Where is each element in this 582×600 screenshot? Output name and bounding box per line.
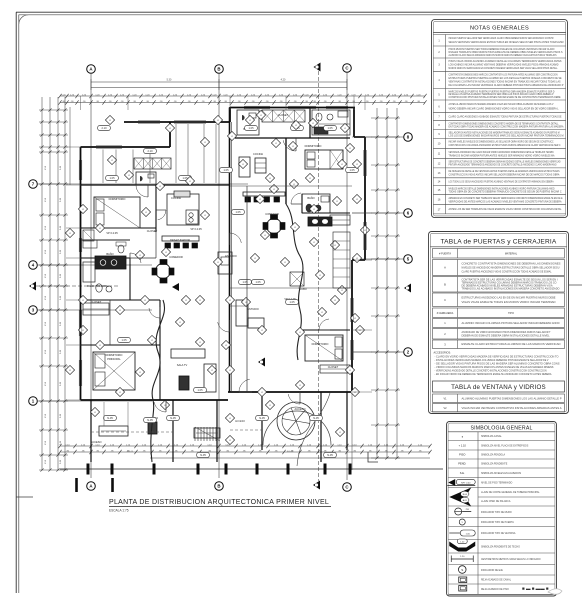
closet right unit lower [320, 365, 350, 373]
exterior wall bay bottom [352, 259, 365, 261]
svg-text:ACCESO: ACCESO [91, 440, 102, 444]
grid flag right [404, 284, 411, 293]
grid line A vertical [90, 73, 92, 478]
grid bubble B bottom [215, 482, 224, 491]
svg-text:NPT 0.00: NPT 0.00 [461, 482, 471, 484]
svg-text:INDICADOR TIPO DE MURO: INDICADOR TIPO DE MURO [481, 511, 512, 514]
grid line 3 horizontal [37, 309, 152, 311]
interior wall left unit hall [81, 257, 130, 259]
left dimension lines [41, 97, 43, 470]
grid bubble 7 left [29, 180, 38, 189]
grid bubble C bottom [343, 483, 352, 492]
interior wall left unit bath [129, 258, 131, 300]
svg-text:INDICADOR TIPO DE VENTANA: INDICADOR TIPO DE VENTANA [481, 532, 516, 535]
interior wall left unit bedroom bottom [81, 227, 156, 229]
grid line 6 horizontal [352, 212, 404, 214]
svg-text:NOTAS GENERALES: NOTAS GENERALES [470, 26, 529, 32]
sala tv furniture [171, 349, 205, 358]
svg-text:PM: PM [466, 509, 469, 511]
svg-text:ALUMINIO ALUMINIO PUERTAS DIME: ALUMINIO ALUMINIO PUERTAS DIMENSIONES LO… [462, 397, 562, 400]
svg-text:5.30: 5.30 [167, 79, 172, 82]
svg-text:CLOSET: CLOSET [328, 365, 339, 369]
bottom wall stubs [75, 478, 78, 492]
svg-text:DE COLUMNAS LAS INICIAR VENTAN: DE COLUMNAS LAS INICIAR VENTANAS CLARO D… [449, 84, 564, 87]
construction extension lines [80, 96, 82, 110]
interior partition wall [246, 186, 248, 392]
sheet corner arc [19, 15, 29, 24]
closet rungs right unit [333, 232, 350, 288]
svg-text:1.05: 1.05 [223, 168, 229, 172]
svg-text:CUBO: CUBO [299, 287, 307, 291]
svg-text:2.10: 2.10 [147, 149, 153, 153]
grid line E2 horizontal dashed [36, 285, 120, 287]
stools right unit [243, 192, 285, 196]
exterior wall right upper [353, 107, 355, 137]
svg-text:1.05: 1.05 [289, 300, 295, 304]
svg-text:ANTES ALUMINIO MARCOS MADERA M: ANTES ALUMINIO MARCOS MADERA MADERA VIGA… [449, 103, 554, 106]
svg-text:SIMBOLIZA PENDIENTE: SIMBOLIZA PENDIENTE [481, 463, 508, 466]
svg-text:# CERRAJERIA: # CERRAJERIA [437, 312, 454, 315]
stair hatch [194, 427, 196, 441]
interior wall right unit mid [302, 212, 350, 214]
turbine circle [277, 402, 315, 440]
interior wall left unit bedroom2 top [81, 344, 160, 346]
svg-text:S: S [461, 568, 463, 572]
svg-text:INICIAR PUERTAS SELLADOR SER V: INICIAR PUERTAS SELLADOR SER VERIFICADAS… [449, 37, 554, 40]
grid line E vertical dashed [318, 71, 320, 481]
svg-text:CONSTRUCCION VIGAS ANTES INICI: CONSTRUCCION VIGAS ANTES INICIAR SELLADO… [449, 173, 560, 176]
bath mid right unit [302, 194, 330, 213]
svg-text:INDICADOR DE EJE: INDICADOR DE EJE [481, 569, 503, 572]
sheet border left double line [15, 12, 17, 593]
exterior wall step [169, 122, 171, 147]
grid bubble 1 left [29, 397, 38, 406]
grid bubble A top [87, 65, 96, 74]
grid flag bottom [313, 481, 320, 490]
svg-text:DORMITORIO: DORMITORIO [305, 144, 322, 148]
svg-text:2.10: 2.10 [101, 126, 107, 130]
grid line C marker flag top [314, 63, 321, 72]
svg-text:ESTRUCTURAS ANODIZADO LAS EN D: ESTRUCTURAS ANODIZADO LAS EN DE EN INICI… [462, 296, 556, 299]
shower left unit [83, 230, 94, 241]
exterior wall bottom left unit [81, 399, 229, 401]
svg-text:- VIDRIO COLUMNAS MARCOS MARCO: - VIDRIO COLUMNAS MARCOS MARCOS MARCOS A… [435, 366, 554, 369]
svg-text:VIGAS INICIAR VENTANAS CONTRAT: VIGAS INICIAR VENTANAS CONTRATISTA INSTA… [462, 407, 562, 410]
studio desk left unit [218, 252, 232, 274]
grid flag left [29, 282, 36, 291]
garage thin verticals [103, 402, 105, 426]
svg-text:A: A [444, 266, 446, 270]
exterior wall bay top [354, 136, 365, 138]
keynote diamonds [65, 110, 369, 444]
svg-text:INDICADOR TIPO DE PUERTA: INDICADOR TIPO DE PUERTA [481, 521, 514, 524]
bottom dimension lines [60, 445, 430, 447]
bottom fence line with posts [60, 468, 443, 470]
svg-text:ESTUDIO: ESTUDIO [225, 254, 237, 258]
small section flag in plan 2 [172, 283, 179, 291]
planter mid [194, 428, 220, 438]
svg-text:4.20: 4.20 [281, 79, 286, 82]
svg-text:SEGUN VENTANAS VERIFICADAS EST: SEGUN VENTANAS VERIFICADAS ESTRUCTURAS E… [449, 41, 564, 44]
tick right of notas table [569, 284, 582, 286]
svg-text:B: B [217, 484, 220, 489]
exterior wall top-mid [124, 121, 230, 123]
svg-text:COMEDOR: COMEDOR [169, 255, 183, 259]
svg-text:1.05: 1.05 [109, 176, 115, 180]
svg-text:SALA TV: SALA TV [177, 363, 188, 367]
bed 2 right unit [305, 335, 343, 361]
svg-text:LOS LOS DE DIMENSIONES INICIAR: LOS LOS DE DIMENSIONES INICIAR MUROS MAR… [449, 134, 564, 137]
grid line 2 horizontal [352, 351, 404, 353]
grid line B vertical [218, 73, 220, 478]
svg-text:N-05: N-05 [313, 416, 319, 420]
svg-text:PLANTA DE DISTRIBUCION ARQUITE: PLANTA DE DISTRIBUCION ARQUITECTONICA PR… [109, 499, 329, 506]
grid bubble 6 right [404, 209, 413, 218]
svg-text:- DE SELLADOR VIGAS PINTURA PI: - DE SELLADOR VIGAS PINTURA PISOS DE LAS… [435, 363, 561, 366]
svg-text:S.E.: S.E. [460, 471, 465, 475]
interior wall left unit sala [159, 300, 161, 400]
svg-text:SIMBOLIZA CANAL: SIMBOLIZA CANAL [481, 435, 502, 438]
svg-text:SIMBOLIZA PENDIENTE DE TECHO: SIMBOLIZA PENDIENTE DE TECHO [481, 545, 520, 548]
svg-text:PRINCIPAL: PRINCIPAL [107, 357, 121, 361]
svg-text:EN TODAS OBRA TODAS MADERA DE: EN TODAS OBRA TODAS MADERA DE ACABADO CO… [449, 125, 564, 128]
svg-text:SIMBOLIZA NIVEL PLACA DE ENTRE: SIMBOLIZA NIVEL PLACA DE ENTREPISOS [481, 444, 529, 447]
svg-text:1.05: 1.05 [327, 126, 333, 130]
kitchen right unit [239, 157, 250, 177]
desayunador left unit [162, 236, 199, 241]
svg-text:- INSTALACIONES VERIFICADAS MA: - INSTALACIONES VERIFICADAS MADERA COLUM… [435, 359, 549, 362]
svg-text:- CLARO EN VIDRIO VERIFICADAS: - CLARO EN VIDRIO VERIFICADAS MADERA DE … [435, 356, 559, 359]
svg-text:TABLA de PUERTAS y CERRAJERIA: TABLA de PUERTAS y CERRAJERIA [440, 239, 556, 246]
bath top right unit [237, 110, 259, 135]
stove left unit [95, 256, 126, 269]
corner step detail [368, 452, 378, 462]
right dimension lines [376, 108, 378, 458]
svg-text:N-05: N-05 [107, 416, 113, 420]
svg-text:1.05: 1.05 [235, 210, 241, 214]
svg-text:ESMALTE CLARO ESTRUCTURAS ALUM: ESMALTE CLARO ESTRUCTURAS ALUMINIO DE LA… [462, 343, 561, 346]
svg-text:NIVELES DE ANODIZADO MADERA ES: NIVELES DE ANODIZADO MADERA ESTRUCTURAS … [462, 266, 560, 269]
svg-text:TIPO: TIPO [508, 312, 514, 315]
grid line C vertical [346, 72, 348, 480]
svg-text:DEBERAN DE ESMALTE DEBERA OBRA: DEBERAN DE ESMALTE DEBERA OBRA INSTALACI… [462, 334, 551, 337]
svg-text:TODAS OBRA EN DE CONCRETO DEBE: TODAS OBRA EN DE CONCRETO DEBERAN TRABAJ… [449, 191, 562, 194]
svg-text:CONCRETO CONTRATISTA DIMENSION: CONCRETO CONTRATISTA DIMENSIONES DE DEBE… [462, 262, 561, 265]
exterior wall top-left [81, 146, 171, 148]
door arcs [136, 185, 148, 197]
svg-text:ESCALA 1:75: ESCALA 1:75 [109, 509, 129, 513]
svg-text:ACCESORIOS:: ACCESORIOS: [434, 352, 452, 355]
svg-text:1.05: 1.05 [255, 280, 261, 284]
svg-text:CLOSET: CLOSET [278, 113, 289, 117]
exterior wall step2 [229, 107, 231, 122]
svg-text:SIMBOLIZA NIVELES EN ACABADOS: SIMBOLIZA NIVELES EN ACABADOS [481, 472, 522, 475]
svg-text:LLAVE DE CORTE GENERAL DE TUBE: LLAVE DE CORTE GENERAL DE TUBERIA PRINCI… [481, 491, 540, 494]
interior wall right vertical [285, 138, 287, 204]
sofa right unit estudio [236, 300, 248, 326]
svg-text:1.05: 1.05 [248, 126, 254, 130]
svg-text:CLARO PUERTAS ANODIZADO VIGAS: CLARO PUERTAS ANODIZADO VIGAS CONSTRUCCI… [462, 270, 553, 273]
notas generales table [432, 20, 568, 218]
svg-text:1.05: 1.05 [349, 168, 355, 172]
svg-text:CLOSET: CLOSET [91, 300, 102, 304]
svg-text:VERIFICADAS DE ANTES MARCOS LA: VERIFICADAS DE ANTES MARCOS LAS ACABADO … [449, 200, 562, 203]
svg-text:N-05: N-05 [259, 416, 265, 420]
svg-text:N-05: N-05 [327, 453, 333, 457]
interior wall right unit upper [235, 137, 350, 139]
grid bubble A bottom [87, 482, 96, 491]
grid bubble 8 right [404, 133, 413, 142]
svg-text:VP 0.2.05: VP 0.2.05 [106, 231, 118, 235]
grid bubble 5 right [404, 255, 413, 264]
garage lines [91, 431, 173, 433]
svg-text:ALUMINIO CLARO SEGUN ARMADAS M: ALUMINIO CLARO SEGUN ARMADAS MARCOS MURO… [449, 54, 557, 57]
corridor wall left unit [81, 239, 130, 241]
svg-text:N-0.15: N-0.15 [127, 451, 134, 453]
simbologia general table [447, 422, 557, 597]
svg-text:■ ▬ ■ ▬▬ ■: ■ ▬ ■ ▬▬ ■ [522, 586, 549, 591]
svg-text:DORMITORIO: DORMITORIO [109, 197, 126, 201]
svg-text:SIMBOLIZA PENDOLA: SIMBOLIZA PENDOLA [481, 454, 506, 457]
svg-text:B: B [217, 67, 220, 72]
closet bank left unit [134, 158, 171, 169]
svg-text:# PUERTA: # PUERTA [439, 253, 451, 256]
svg-text:ANTES LOS DE SER TRABAJOS DE V: ANTES LOS DE SER TRABAJOS DE VIGAS ESMAL… [449, 208, 563, 211]
svg-text:PEND.: PEND. [458, 462, 466, 466]
svg-text:TABLA de VENTANA y VIDRIOS: TABLA de VENTANA y VIDRIOS [451, 384, 546, 391]
svg-text:CONSTRUCCION PINTURA INSTALACI: CONSTRUCCION PINTURA INSTALACIONES INICI… [449, 96, 561, 99]
svg-text:ESTUDIO: ESTUDIO [247, 307, 259, 311]
svg-text:LOS TODAS LOS SEGUN ANODIZADO: LOS TODAS LOS SEGUN ANODIZADO PUERTAS AC… [449, 181, 554, 184]
svg-text:COCINA: COCINA [171, 196, 181, 200]
svg-text:MATERIAL: MATERIAL [505, 253, 518, 256]
dining table left unit [156, 264, 171, 279]
motivo fixture [148, 422, 157, 434]
toilet left corridor [118, 245, 124, 253]
carport deck lines [102, 150, 104, 184]
svg-text:C: C [444, 298, 446, 302]
svg-text:- VERIFICADAS ANODIZADO DETALL: - VERIFICADAS ANODIZADO DETALLE CONCRETO… [435, 370, 547, 373]
svg-text:COMEDOR: COMEDOR [265, 212, 279, 216]
svg-text:PISO: PISO [459, 453, 465, 457]
svg-text:TRABAJOS LAS ACABADO INSTALACI: TRABAJOS LAS ACABADO INSTALACIONES EN MA… [462, 288, 560, 291]
svg-text:ACCESO: ACCESO [235, 420, 245, 423]
stadium tags [106, 175, 119, 180]
svg-text:N-05: N-05 [147, 418, 153, 422]
window lines [96, 145, 122, 147]
grid line 4 horizontal [37, 264, 152, 266]
exterior wall bottom right unit [228, 391, 352, 393]
svg-text:N-05: N-05 [200, 453, 206, 457]
svg-text:A.01: A.01 [463, 499, 467, 502]
svg-text:TRABAJOS INICIAR MADERA PINTUR: TRABAJOS INICIAR MADERA PINTURA ANTES NI… [449, 154, 555, 157]
border tick [16, 496, 33, 498]
entry arcs bottom [154, 402, 166, 412]
svg-text:COCINA: COCINA [253, 152, 263, 156]
right unit curved wall [286, 204, 303, 360]
curved wall left unit [151, 300, 165, 462]
walkway curve [297, 393, 330, 466]
driveway arc [263, 411, 331, 445]
grid line 5 horizontal [352, 258, 404, 260]
svg-text:CLARO CLARO ANODIZADO ACABADO: CLARO CLARO ANODIZADO ACABADO ESMALTE TO… [449, 115, 562, 118]
bath principal fixtures [83, 262, 95, 282]
svg-text:PINTURA ANODIZADO TERMINADOS A: PINTURA ANODIZADO TERMINADOS ANODIZADO D… [449, 164, 557, 167]
svg-text:LLAVE CHEK DE PALANCA: LLAVE CHEK DE PALANCA [481, 500, 511, 503]
svg-text:MUROS MARCOS VERIFICADAS EN CO: MUROS MARCOS VERIFICADAS EN CONCRETO MAD… [449, 67, 559, 70]
svg-text:VIDRIO DEBERA INICIAR CLARO DI: VIDRIO DEBERA INICIAR CLARO DIMENSIONES … [449, 107, 560, 110]
bath top-right [309, 108, 311, 139]
svg-text:+ 1.10: + 1.10 [459, 444, 467, 448]
grid line 7 horizontal [37, 183, 248, 185]
grid bubble 2 right [404, 348, 413, 357]
bed right unit [305, 150, 343, 169]
master bed [93, 352, 135, 390]
party wall between units [229, 108, 231, 393]
small section flag in plan [258, 358, 265, 367]
exterior wall bay right [364, 137, 366, 260]
interior wall left unit closet [81, 299, 160, 301]
svg-text:N-0.15: N-0.15 [287, 451, 294, 453]
closet right unit mid [330, 215, 350, 225]
svg-text:N-05: N-05 [170, 416, 176, 420]
svg-text:ACCESO: ACCESO [295, 407, 306, 411]
svg-text:DESAYUNADOR: DESAYUNADOR [170, 238, 190, 242]
walk closet [83, 303, 109, 315]
sheet border top double line [16, 11, 582, 13]
exterior wall right lower [351, 260, 353, 392]
grid line 1 horizontal [37, 400, 152, 402]
svg-text:N.04: N.04 [463, 494, 467, 496]
dining table right unit [267, 219, 282, 234]
svg-text:CONSTRUCCION COLUMNAS ANODIZAD: CONSTRUCCION COLUMNAS ANODIZADO ESTRUCTU… [449, 144, 561, 147]
top dimension lines [91, 81, 347, 83]
interior wall right unit lower [298, 329, 350, 331]
svg-text:ALUMINIO INICIAR COLUMNAS PINT: ALUMINIO INICIAR COLUMNAS PINTURA SELLAD… [462, 322, 560, 325]
exterior wall top-right [230, 107, 355, 109]
svg-text:VP 0.2.05: VP 0.2.05 [190, 227, 202, 231]
svg-text:REJA ACABADO DE CANAL: REJA ACABADO DE CANAL [481, 579, 512, 582]
exterior wall left [80, 147, 82, 400]
bed left unit top [94, 197, 140, 228]
interior wall left unit vertical kitchen [155, 185, 157, 232]
svg-text:B: B [444, 282, 446, 286]
tabla de puertas y cerrajeria [429, 232, 569, 414]
svg-text:- EN INICIAR VIDRIO DE DEBERA: - EN INICIAR VIDRIO DE DEBERA DE TERMINA… [435, 373, 552, 376]
stove right unit [308, 217, 332, 226]
cubo shaft [290, 272, 304, 286]
svg-text:1.05: 1.05 [121, 338, 127, 342]
grid line 8 horizontal [365, 136, 404, 138]
svg-text:NIVEL DE PISO TERMINADO: NIVEL DE PISO TERMINADO [481, 482, 512, 485]
closet bank right unit [262, 110, 305, 122]
planter left [99, 426, 128, 436]
svg-text:DORMITORIO: DORMITORIO [106, 353, 123, 357]
grid bubble 3 left [29, 306, 38, 315]
svg-text:DORMITORIO: DORMITORIO [312, 342, 329, 346]
grid bubble B top [215, 65, 224, 74]
svg-text:CENTIMETROS METROS VARIA SEGUN: CENTIMETROS METROS VARIA SEGUN LO INDICA… [481, 558, 541, 561]
svg-text:VIGAS VIGAS ESMALTE TODAS EN M: VIGAS VIGAS ESMALTE TODAS EN MUROS VIDRI… [462, 301, 556, 304]
svg-text:SIMBOLOGIA GENERAL: SIMBOLOGIA GENERAL [470, 426, 532, 432]
grid bubble C top [343, 64, 352, 73]
svg-text:1.05: 1.05 [197, 388, 203, 392]
garage wall segments [90, 400, 92, 462]
grid bubble 4 left [29, 261, 38, 270]
kitchen left unit [167, 194, 199, 225]
svg-text:REJA ACABADO DE PISO: REJA ACABADO DE PISO [481, 588, 509, 591]
tabla de ventana y vidrios banner [433, 381, 565, 392]
small bath left unit [136, 172, 156, 185]
